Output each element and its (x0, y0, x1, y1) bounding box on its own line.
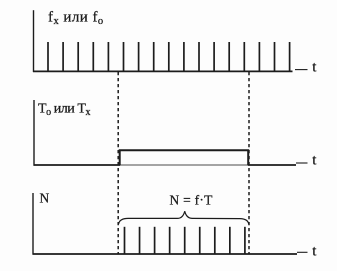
svg-text:N: N (40, 190, 50, 205)
svg-text:Tо или Tx: Tо или Tx (38, 101, 91, 118)
svg-text:N = f·T: N = f·T (170, 193, 214, 208)
